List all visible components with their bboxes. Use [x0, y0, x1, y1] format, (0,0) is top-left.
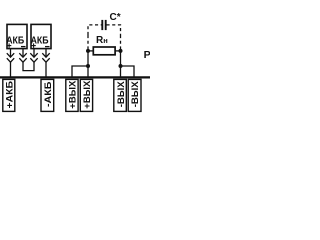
dashed wire C* top-left [88, 25, 102, 35]
wire series link GB1- to GB2+ [23, 62, 34, 71]
wire right node down to strip [120, 50, 122, 77]
wire branch to first +ВЫХ terminal [72, 66, 88, 77]
connector X3 (GB2 +) pin-socket [30, 49, 37, 63]
svg-text:+АКБ: +АКБ [5, 81, 16, 109]
svg-text:-ВЫХ: -ВЫХ [116, 81, 127, 108]
junction dot right branch [119, 64, 123, 68]
battery GB1 polarity - [21, 46, 26, 48]
svg-text:Р: Р [144, 49, 150, 61]
svg-text:-АКБ: -АКБ [43, 81, 54, 107]
dashed wire C* right drop [120, 35, 122, 50]
battery GB1 (АКБ) box [7, 24, 27, 48]
panel edge line [0, 76, 150, 78]
svg-text:Rн: Rн [96, 35, 108, 46]
battery GB2 polarity - [45, 46, 50, 48]
svg-text:C*: C* [110, 12, 121, 23]
dashed wire C* left drop [87, 35, 89, 50]
terminal -ВЫХ box 2 [128, 79, 141, 111]
capacitor C* plates [102, 20, 105, 30]
resistor Rн left lead [88, 50, 93, 52]
resistor Rн body [93, 47, 115, 55]
terminal +АКБ box [3, 79, 15, 111]
terminal -АКБ box [41, 79, 54, 111]
terminal +ВЫХ box 1 [66, 79, 78, 111]
terminal +ВЫХ box 2 [80, 79, 92, 111]
junction dot right at resistor [119, 49, 123, 53]
battery GB1 polarity + [7, 43, 11, 47]
connector X4 (GB2 -) pin-socket [42, 49, 49, 63]
wire GB2- to -АКБ terminal [45, 62, 47, 77]
terminal -ВЫХ box 1 [114, 79, 127, 111]
battery GB2 (АКБ) box [31, 24, 51, 48]
resistor Rн right lead [115, 50, 120, 52]
wire branch to second -ВЫХ terminal [121, 66, 135, 77]
connector X2 (GB1 -) pin-socket [19, 49, 26, 63]
svg-text:+ВЫХ: +ВЫХ [68, 80, 79, 109]
battery GB2 polarity + [31, 43, 35, 47]
connector X1 (GB1 +) pin-socket [7, 49, 14, 63]
svg-text:-ВЫХ: -ВЫХ [130, 81, 141, 108]
wire left node down to strip [87, 50, 89, 77]
dashed wire C* top-right [107, 25, 121, 35]
junction dot left at resistor [86, 49, 90, 53]
svg-text:+ВЫХ: +ВЫХ [82, 80, 93, 109]
junction dot left branch [86, 64, 90, 68]
wire GB1+ to +АКБ terminal [10, 62, 12, 77]
